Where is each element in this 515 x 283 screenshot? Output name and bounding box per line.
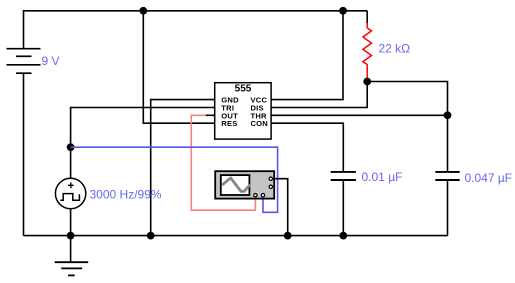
label capacitor C2 value 0.047 uF bbox=[465, 171, 513, 185]
wire vertical from top rail to RES pin bbox=[143, 11, 214, 123]
pin label VCC bbox=[251, 96, 268, 105]
pin label GND bbox=[221, 96, 239, 105]
wire ground rail bbox=[24, 235, 448, 237]
svg-text:CON: CON bbox=[251, 119, 268, 128]
pin label CON bbox=[251, 119, 268, 128]
resistor R1 22 kOhm bbox=[363, 11, 372, 82]
node junction GND wire on ground rail bbox=[147, 232, 155, 240]
svg-text:0.047 µF: 0.047 µF bbox=[465, 171, 513, 185]
svg-text:555: 555 bbox=[235, 84, 252, 95]
pin label DIS bbox=[251, 104, 264, 113]
op-amp U1 555 timer body bbox=[215, 83, 271, 139]
label resistor 22 kOhm bbox=[379, 42, 411, 56]
node junction top rail at x=143 bbox=[139, 7, 147, 15]
wire resistor bottom node to cap C2 top bbox=[367, 82, 447, 172]
node junction scope ground on rail bbox=[284, 232, 292, 240]
capacitor C2 0.047 uF bbox=[435, 172, 459, 180]
svg-text:RES: RES bbox=[221, 119, 237, 128]
pin stub OUT left bbox=[206, 114, 215, 116]
wire OUT to scope channel A (red) bbox=[191, 115, 255, 210]
capacitor C1 0.01 uF bbox=[331, 172, 356, 180]
svg-text:22 kΩ: 22 kΩ bbox=[379, 42, 411, 56]
wire TRI pin to pulse source top bbox=[71, 108, 215, 179]
svg-text:9 V: 9 V bbox=[42, 54, 60, 68]
pin label THR bbox=[251, 111, 268, 120]
wire blue from TRI node to scope channel B bbox=[71, 147, 278, 212]
ground symbol bbox=[55, 236, 88, 276]
wire DIS pin to resistor bottom node bbox=[271, 82, 367, 108]
pin label OUT bbox=[221, 111, 238, 120]
wire GND pin to ground rail bbox=[151, 100, 215, 236]
node junction THR on C2 branch bbox=[444, 111, 452, 119]
node junction pulse source / ground symbol on rail bbox=[67, 232, 75, 240]
wire scope ground terminal to ground rail bbox=[272, 179, 288, 236]
wire THR pin to cap C2 top node bbox=[271, 114, 447, 116]
pin label RES bbox=[221, 119, 237, 128]
wire battery bottom lead to ground rail bbox=[23, 73, 25, 235]
node junction on TRI wire where blue wire taps bbox=[67, 143, 75, 151]
node junction VCC on top rail bbox=[339, 7, 347, 15]
label pulse source 3000 Hz/99% bbox=[90, 188, 162, 202]
battery V1 9V bbox=[7, 49, 41, 73]
pulse source V2 clock symbol bbox=[55, 178, 85, 208]
label capacitor C1 value 0.01 uF bbox=[362, 170, 403, 184]
label battery value 9 V bbox=[42, 54, 60, 68]
node junction resistor bottom / DIS bbox=[363, 78, 371, 86]
svg-text:3000 Hz/99%: 3000 Hz/99% bbox=[90, 188, 162, 202]
wire CON pin to cap C1 top bbox=[271, 123, 343, 172]
svg-text:0.01 µF: 0.01 µF bbox=[362, 170, 403, 184]
wire VCC pin to top rail bbox=[271, 11, 343, 100]
node junction C1 on ground rail bbox=[339, 232, 347, 240]
pin label TRI bbox=[221, 104, 234, 113]
wire C1 bottom to ground rail bbox=[342, 180, 344, 236]
wire battery top lead bbox=[23, 10, 25, 49]
wire pulse source bottom to ground rail bbox=[70, 209, 72, 236]
wire top rail VCC net bbox=[24, 10, 368, 12]
wire C2 bottom to ground rail bbox=[447, 180, 449, 236]
oscilloscope XSC1 bbox=[215, 171, 274, 198]
